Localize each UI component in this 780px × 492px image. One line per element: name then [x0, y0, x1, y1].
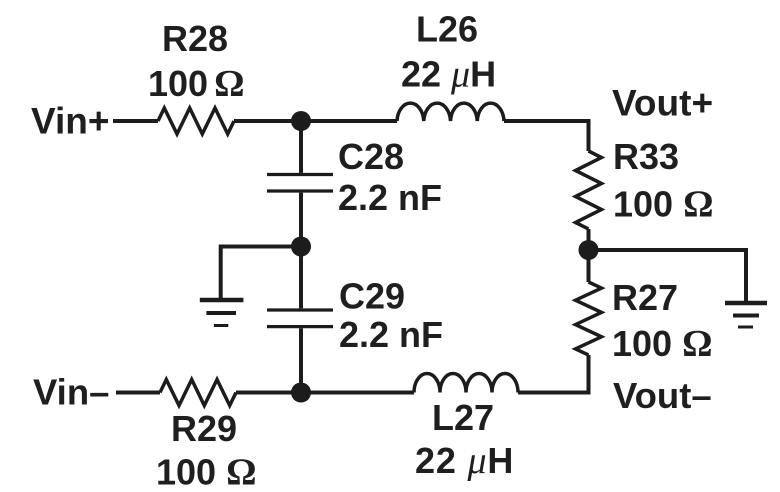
svg-text:100 Ω: 100 Ω — [613, 184, 714, 226]
svg-text:R28: R28 — [162, 18, 228, 59]
svg-text:L26: L26 — [416, 9, 478, 50]
svg-text:100 Ω: 100 Ω — [148, 63, 245, 105]
svg-text:Vin+: Vin+ — [31, 101, 110, 142]
svg-text:L27: L27 — [432, 397, 494, 438]
svg-text:22 μH: 22 μH — [401, 54, 496, 96]
svg-text:Vout–: Vout– — [613, 375, 712, 416]
svg-text:Vin–: Vin– — [33, 372, 109, 413]
svg-text:2.2 nF: 2.2 nF — [339, 314, 443, 355]
svg-text:100 Ω: 100 Ω — [612, 323, 713, 365]
svg-text:2.2 nF: 2.2 nF — [338, 177, 442, 218]
svg-text:C28: C28 — [338, 136, 404, 177]
svg-text:R29: R29 — [171, 408, 237, 449]
svg-text:100 Ω: 100 Ω — [156, 452, 257, 492]
svg-text:R27: R27 — [612, 277, 678, 318]
svg-text:C29: C29 — [339, 276, 405, 317]
svg-text:22 μH: 22 μH — [415, 440, 514, 482]
svg-text:R33: R33 — [613, 136, 679, 177]
svg-text:Vout+: Vout+ — [612, 83, 713, 124]
